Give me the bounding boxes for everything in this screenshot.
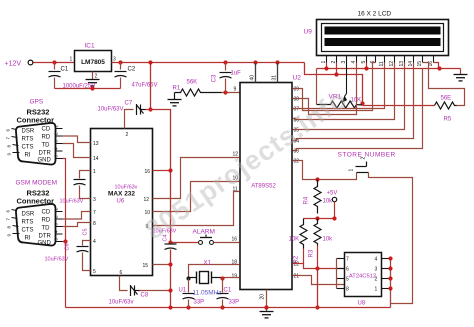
svg-text:ALARM: ALARM <box>193 229 215 236</box>
connector J2 GSM DB9 <box>16 204 56 246</box>
wire ground rail C1-C2 <box>55 88 121 90</box>
svg-text:15: 15 <box>417 61 423 67</box>
svg-text:U8: U8 <box>358 301 366 307</box>
svg-text:U9: U9 <box>304 29 313 36</box>
wire GPS RD to MAX pin13 <box>63 136 91 143</box>
svg-text:19: 19 <box>232 274 238 280</box>
svg-text:MAX 232: MAX 232 <box>108 191 135 198</box>
capacitor C3 1uF <box>223 60 227 64</box>
svg-text:STORE NUMBER: STORE NUMBER <box>338 152 396 159</box>
micro U2 AT89S52 <box>240 83 292 290</box>
svg-text:U1: U1 <box>179 288 187 294</box>
svg-text:10uF/63v: 10uF/63v <box>115 185 138 191</box>
svg-text:GND: GND <box>38 241 52 247</box>
svg-text:10k: 10k <box>323 199 334 205</box>
VR1 left leg to ground rail <box>316 69 318 105</box>
ground at R1 <box>168 100 182 106</box>
svg-text:R4: R4 <box>304 196 310 204</box>
svg-text:3: 3 <box>113 57 116 63</box>
svg-text:38: 38 <box>294 97 300 103</box>
svg-text:1: 1 <box>349 169 355 172</box>
GSM left pin stubs <box>12 210 20 234</box>
svg-text:8: 8 <box>346 287 349 293</box>
svg-text:21: 21 <box>294 274 300 280</box>
svg-text:GSM MODEM: GSM MODEM <box>16 180 58 187</box>
svg-text:33P: 33P <box>229 300 240 306</box>
svg-text:C7: C7 <box>125 101 133 107</box>
wire MAX pin9 to micro pin11 <box>153 192 240 226</box>
svg-text:7: 7 <box>93 210 96 216</box>
svg-text:RI: RI <box>25 153 31 159</box>
svg-text:DTR: DTR <box>39 151 52 157</box>
ic MAX232 U6 <box>91 129 153 276</box>
svg-text:8: 8 <box>93 221 96 227</box>
wire MAX pin16 to +5V vertical <box>153 170 171 172</box>
svg-text:47uF/65V: 47uF/65V <box>132 83 158 89</box>
svg-text:AT89S52: AT89S52 <box>251 184 276 190</box>
pin 40 stub <box>253 60 257 64</box>
pin number labels MAX232 <box>93 132 150 276</box>
svg-text:56K: 56K <box>187 80 198 86</box>
svg-text:15: 15 <box>143 263 149 269</box>
svg-text:14: 14 <box>93 156 99 162</box>
svg-text:33P: 33P <box>194 300 205 306</box>
wire pin7-pin8 tie <box>336 259 338 289</box>
switch STORE NUMBER pushbutton <box>356 162 369 173</box>
wire R4 bottom rail <box>304 218 335 220</box>
svg-text:AT24C512: AT24C512 <box>349 274 376 280</box>
svg-text:1: 1 <box>93 169 96 175</box>
GPS right pin stubs <box>56 129 63 159</box>
svg-text:39: 39 <box>294 87 300 93</box>
wire MAX pin12 to micro pin12 <box>153 158 240 199</box>
eeprom U8 AT24C512 <box>345 253 382 297</box>
svg-text:IC1: IC1 <box>85 43 96 50</box>
svg-text:32: 32 <box>294 159 300 165</box>
svg-text:2: 2 <box>375 277 378 283</box>
svg-text:TD: TD <box>42 226 51 232</box>
svg-text:C1: C1 <box>224 288 232 294</box>
+5V vertical from rail to C7 node <box>150 63 152 110</box>
svg-text:RD: RD <box>42 218 51 224</box>
svg-text:6: 6 <box>120 270 123 276</box>
left pins <box>337 259 345 289</box>
ground under IC1 <box>86 80 100 86</box>
wire IC1 pin2 down <box>92 72 94 80</box>
VR1 wiper from LCD pin3 <box>345 63 347 97</box>
svg-text:DSR: DSR <box>22 212 35 218</box>
svg-text:U2: U2 <box>293 75 302 82</box>
wire C7 node to VCC vertical <box>146 110 171 244</box>
svg-text:CTS: CTS <box>22 145 34 151</box>
svg-text:22: 22 <box>294 262 300 268</box>
svg-text:5: 5 <box>93 269 96 275</box>
wire GSM RD to MAX pin7 <box>63 212 91 220</box>
svg-text:2: 2 <box>95 74 98 80</box>
svg-text:U6: U6 <box>117 199 125 205</box>
svg-text:31: 31 <box>272 75 278 81</box>
svg-text:+5V: +5V <box>327 191 338 197</box>
capacitor C1 33P <box>222 279 224 293</box>
svg-text:20: 20 <box>260 294 266 300</box>
wire IC1 out rail <box>112 62 305 64</box>
svg-text:3: 3 <box>93 197 96 203</box>
wire GPS GND down <box>63 159 66 242</box>
wire switch to EEPROM loop <box>369 173 413 304</box>
wire GPS TD to MAX pin14 <box>63 144 91 158</box>
svg-text:16: 16 <box>145 169 151 175</box>
svg-text:16 X 2 LCD: 16 X 2 LCD <box>358 11 392 18</box>
svg-text:56E: 56E <box>441 96 452 102</box>
wire MAX pin15 to vertical <box>153 264 171 266</box>
svg-text:C1: C1 <box>61 67 69 73</box>
svg-text:C6: C6 <box>65 243 71 250</box>
svg-text:CD: CD <box>42 127 51 133</box>
svg-text:+12V: +12V <box>5 61 22 68</box>
svg-text:1: 1 <box>70 57 73 63</box>
svg-text:TD: TD <box>42 143 51 149</box>
VCC wire to LCD pin2 <box>305 63 363 104</box>
switch alarm (pushbutton) <box>199 241 203 245</box>
svg-text:RTS: RTS <box>22 137 34 143</box>
wire bottom rail <box>66 307 391 309</box>
svg-text:40: 40 <box>250 75 256 81</box>
svg-text:2: 2 <box>126 132 129 138</box>
svg-text:4: 4 <box>93 239 96 245</box>
svg-text:10uF/63v: 10uF/63v <box>109 300 134 306</box>
capacitor C1 1000uF/25V <box>52 60 56 64</box>
wire alarm left to +5v vertical <box>171 242 199 244</box>
wire R5 loop to LCD pin15 <box>423 63 465 106</box>
svg-text:16: 16 <box>232 237 238 243</box>
svg-text:1uF: 1uF <box>231 71 242 77</box>
svg-text:RD: RD <box>42 135 51 141</box>
svg-text:DSR: DSR <box>22 129 35 135</box>
LCD pin stubs 1-16 <box>327 56 434 63</box>
svg-text:GPS: GPS <box>30 99 44 106</box>
svg-text:DTR: DTR <box>39 234 52 240</box>
svg-text:10uF/63V: 10uF/63V <box>45 257 69 263</box>
connector J1 GPS DB9 <box>16 123 56 165</box>
svg-text:7: 7 <box>346 257 349 263</box>
ground at LCD right <box>460 69 462 75</box>
svg-text:R1: R1 <box>173 86 181 92</box>
svg-text:10uF/63V: 10uF/63V <box>60 199 84 205</box>
svg-text:10K: 10K <box>289 237 300 243</box>
svg-text:RTS: RTS <box>22 220 34 226</box>
GSM right pin stubs <box>56 212 63 242</box>
svg-text:2: 2 <box>361 157 367 160</box>
right pins <box>382 259 391 289</box>
svg-text:R5: R5 <box>444 117 452 123</box>
wire pin32 to switch <box>293 161 357 180</box>
capacitor C2 47uF/65V <box>118 60 122 64</box>
svg-text:9: 9 <box>234 87 237 93</box>
wire GSM TD to MAX pin8 <box>63 223 91 227</box>
wire +12V to IC1 in <box>34 62 75 64</box>
svg-text:GND: GND <box>38 158 52 164</box>
capacitor between MAX pins 1-3 <box>80 171 91 179</box>
svg-text:C3: C3 <box>212 74 218 82</box>
wire MAX pin11 to micro pin10 <box>153 182 240 212</box>
wire alarm right to micro pin16 <box>214 242 240 244</box>
pin 20 stub + ground <box>266 290 268 307</box>
svg-text:RI: RI <box>25 236 31 242</box>
svg-text:CD: CD <box>42 210 51 216</box>
GPS left pin stubs <box>12 129 20 153</box>
svg-text:C8: C8 <box>141 293 149 299</box>
svg-text:10K: 10K <box>351 98 362 104</box>
svg-text:C5: C5 <box>83 228 89 235</box>
junction R4 top <box>315 177 319 181</box>
svg-text:13: 13 <box>93 141 99 147</box>
wire GSM GND junction <box>63 239 67 243</box>
capacitor between MAX pins 4-5 <box>83 241 91 246</box>
pin 31 stub <box>275 60 279 64</box>
svg-text:LM7805: LM7805 <box>81 59 105 66</box>
svg-text:5: 5 <box>346 277 349 283</box>
svg-text:C2: C2 <box>128 67 136 73</box>
svg-text:10uF/63V: 10uF/63V <box>98 107 124 113</box>
svg-text:3: 3 <box>375 267 378 273</box>
wire R3 junction down to bottom rail <box>317 269 319 308</box>
svg-text:X1: X1 <box>204 261 212 267</box>
wire EEPROM right pins tied, down to rail <box>390 259 392 308</box>
wire R1 to pin9 <box>222 92 240 94</box>
LCD ground rail <box>317 68 461 70</box>
svg-text:6: 6 <box>346 267 349 273</box>
svg-text:12: 12 <box>144 197 150 203</box>
svg-text:10k: 10k <box>323 237 334 243</box>
capacitor U1 33P <box>188 279 190 293</box>
wire VR1 right to R5 <box>363 105 435 107</box>
wire MAX pin6 + capacitor C8 <box>120 276 128 291</box>
wire pin2 up to C7 <box>125 110 134 129</box>
svg-text:4: 4 <box>375 257 378 263</box>
svg-text:1: 1 <box>375 287 378 293</box>
svg-text:CTS: CTS <box>22 228 34 234</box>
svg-text:11.05MHz: 11.05MHz <box>193 290 222 297</box>
svg-text:R3: R3 <box>309 249 315 257</box>
